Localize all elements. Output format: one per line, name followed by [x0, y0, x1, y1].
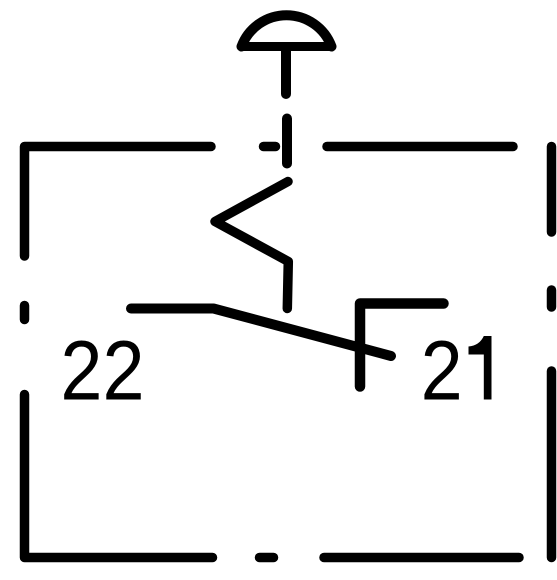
enclosure dashed box: right edge bottom dash: [547, 371, 557, 558]
enclosure dashed box: bottom-left corner segment: [25, 395, 213, 558]
svg-text:22: 22: [60, 324, 144, 418]
enclosure dashed box: left edge short dash: [20, 306, 30, 320]
enclosure dashed box: top-left corner segment: [25, 147, 212, 257]
enclosure dashed box: right edge top dash: [547, 147, 557, 233]
spring return zigzag linkage: [215, 182, 288, 309]
enclosure dashed box: top edge short dash: [264, 142, 276, 152]
enclosure dashed box: right edge short dash: [547, 290, 557, 307]
enclosure dashed box: top edge right dash: [327, 142, 513, 152]
svg-text:2: 2: [421, 324, 463, 418]
NC contact moving bar with terminal 22 lead: [131, 309, 391, 357]
fixed contact terminal 21: [360, 304, 444, 387]
enclosure dashed box: bottom edge right dash: [324, 553, 519, 563]
mechanical linkage dash: [282, 119, 292, 164]
terminal label 21 digit 1: [469, 336, 492, 400]
push-button mushroom head actuator: [242, 15, 332, 46]
actuator stem: [281, 48, 291, 94]
enclosure dashed box: bottom edge short dash: [260, 553, 274, 563]
